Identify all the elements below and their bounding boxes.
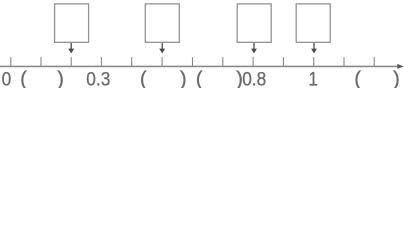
arrow from box 2 to tick 0.5 (159, 43, 165, 54)
svg-text:0.8: 0.8 (242, 68, 266, 88)
svg-text:): ) (393, 68, 400, 89)
svg-text:0.3: 0.3 (86, 68, 110, 88)
svg-text:0: 0 (2, 68, 12, 88)
answer box 1 (above tick 0.2) (55, 4, 89, 42)
answer box 2 (above tick 0.5) (145, 4, 179, 42)
tick 9 (value 0.9) (282, 57, 284, 66)
tick 3 (value 0.3) (100, 57, 102, 66)
tick 1 (value 0.1) (40, 57, 42, 66)
tick 2 (value 0.2) (70, 57, 72, 66)
arrow from box 3 to tick 0.8 (251, 43, 257, 54)
tick 8 (value 0.8) (252, 57, 254, 66)
arrow from box 1 to tick 0.2 (68, 43, 74, 54)
svg-text:1: 1 (308, 68, 318, 88)
svg-text:(: ( (196, 68, 203, 89)
tick 4 (value 0.4) (131, 57, 133, 66)
svg-text:(: ( (20, 68, 27, 89)
svg-text:(: ( (140, 68, 147, 89)
tick 0 (value 0) (10, 57, 12, 66)
tick 11 (value 1.1) (343, 57, 345, 66)
number line right arrowhead (397, 64, 403, 69)
svg-text:(: ( (354, 68, 361, 89)
tick 6 (value 0.6) (192, 57, 194, 66)
tick 10 (value 1) (313, 57, 315, 66)
tick 7 (value 0.7) (222, 57, 224, 66)
tick 12 (value 1.2) (373, 57, 375, 66)
answer box 4 (above tick 1) (296, 4, 330, 42)
svg-text:): ) (180, 68, 187, 89)
number line axis (0, 65, 399, 67)
svg-text:): ) (57, 68, 64, 89)
answer box 3 (above tick 0.8) (237, 4, 271, 42)
arrow from box 4 to tick 1 (311, 43, 317, 54)
tick 5 (value 0.5) (161, 57, 163, 66)
